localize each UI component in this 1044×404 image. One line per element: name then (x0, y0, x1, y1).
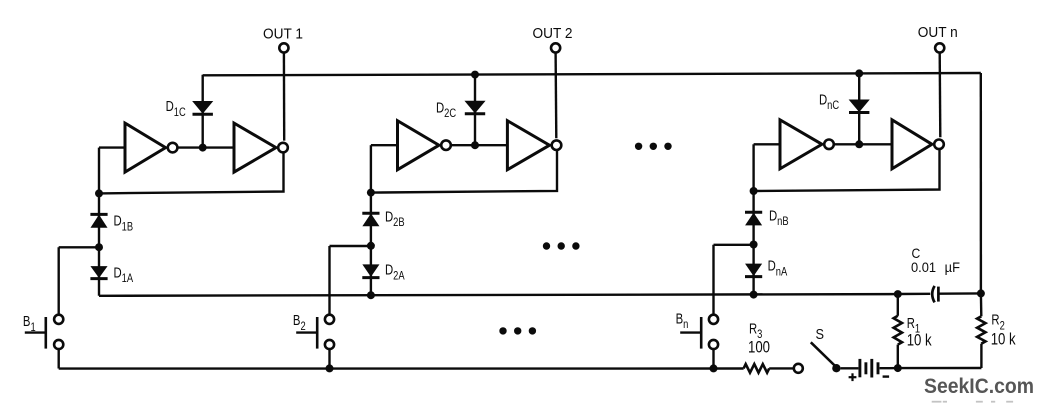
wire diode column stage 2 (370, 193, 372, 296)
inverter U2a (398, 121, 451, 170)
terminal OUT 1 (279, 43, 288, 52)
wire D2C branch (rail to node) (474, 75, 476, 146)
svg-text:0.01 µF: 0.01 µF (911, 260, 960, 276)
wire to U1a input (99, 146, 125, 148)
label battery plus (849, 373, 857, 381)
wire node to R2 bottom corner (898, 367, 982, 370)
wire Bn top riser (712, 245, 714, 315)
wire OUT n stem down to inverter output (939, 53, 942, 138)
wire switch pole to battery (841, 367, 859, 369)
pushbutton B2 actuator (296, 317, 317, 349)
wire B1 top riser (58, 247, 60, 314)
diode D1B (90, 214, 107, 227)
wire B1 top link (59, 246, 99, 248)
wire stage 1 left riser (input column) (98, 148, 100, 194)
node ellipsis (diode row continuation) (543, 242, 580, 249)
wire B2 bottom lead (328, 349, 330, 369)
pushbutton B1 top contact (54, 315, 63, 324)
wire stage 2 left riser (input column) (370, 145, 372, 192)
svg-text:SeekIC.com: SeekIC.com (924, 374, 1034, 398)
wire to Una input (754, 143, 780, 145)
wire Una output to Unb input (834, 143, 892, 145)
wire top rail (diode anode bus) (203, 73, 981, 75)
wire R1 top lead (897, 294, 899, 316)
diode D2C (465, 101, 485, 114)
svg-text:100: 100 (748, 338, 770, 357)
wire R2 bottom riser (980, 344, 982, 368)
node D2B/D2A junction (367, 242, 375, 250)
wire Bn top link (714, 244, 754, 246)
resistor R1 (894, 316, 902, 345)
node between inverters stage 2 (471, 141, 479, 149)
pushbutton B2 bottom contact (325, 340, 334, 349)
node R1 bottom (battery minus rail) (894, 364, 902, 372)
pushbutton Bn top contact (709, 315, 718, 324)
watermark cropped second line remnants (932, 401, 1013, 403)
node ellipsis (button row continuation) (499, 327, 536, 334)
diode DnB (745, 212, 762, 225)
svg-text:10 k: 10 k (991, 330, 1016, 349)
wire feedback stage 2 (U2b output down) (371, 150, 557, 193)
node ellipsis (inverter row continuation) (635, 143, 672, 150)
pushbutton Bn bottom contact (709, 340, 718, 349)
resistor R2 (977, 316, 985, 343)
wire Bn bottom lead (712, 349, 714, 369)
wire U1a output to U1b input (177, 146, 234, 148)
wire mid bus (diode DxA bus) (99, 294, 898, 296)
inverter Una (780, 120, 834, 169)
inverter U1a (125, 123, 177, 172)
node rail junction stage n (855, 69, 863, 77)
battery BT1 (860, 359, 878, 378)
node between inverters stage 1 (199, 144, 207, 152)
wire stage n left riser (input column) (752, 144, 754, 191)
node R1 top (bus) (894, 290, 902, 298)
diode D1A (90, 267, 107, 279)
node D2A to bus junction (367, 291, 375, 299)
wire B2 top riser (328, 246, 330, 315)
wire to U2a input (371, 144, 398, 146)
wire battery to node R1 bottom (880, 367, 898, 370)
diode DnA (745, 264, 762, 277)
label battery minus (883, 375, 890, 377)
node feedback junction stage 2 (367, 189, 375, 197)
node R2 top / C / top rail junction (977, 289, 985, 297)
terminal switch fixed contact (794, 364, 803, 373)
wire R1 bottom lead (897, 345, 899, 369)
switch S lever (811, 342, 836, 367)
diode D2B (362, 213, 379, 226)
capacitor C (932, 286, 938, 303)
node feedback junction stage n (750, 187, 758, 195)
node rail junction stage 2 (471, 71, 479, 79)
svg-text:S: S (816, 325, 825, 342)
wire R3 to switch contact (769, 367, 793, 369)
wire B2 top link (330, 245, 371, 247)
node feedback junction stage 1 (95, 189, 103, 197)
wire feedback stage n (Unb output down) (754, 149, 940, 191)
wire bus to capacitor left (898, 293, 930, 296)
wire OUT 1 stem down to inverter output (283, 53, 286, 141)
pushbutton B1 actuator (25, 317, 46, 349)
svg-text:10 k: 10 k (907, 331, 932, 350)
pushbutton B1 bottom contact (54, 340, 63, 349)
diode DnC (849, 100, 869, 113)
wire diode column stage n (752, 191, 754, 295)
node D1B/D1A junction (95, 243, 103, 251)
node Bn on bottom rail (710, 364, 718, 372)
wire U2a output to U2b input (451, 144, 508, 146)
node DnB/DnA junction (750, 241, 758, 249)
wire B1 bottom lead (58, 349, 60, 369)
svg-text:OUT n: OUT n (918, 25, 958, 42)
wire right rail vertical (980, 73, 983, 293)
diode D2A (362, 265, 379, 278)
svg-text:OUT 1: OUT 1 (263, 26, 303, 43)
terminal OUT n (935, 43, 944, 52)
inverter U2b (507, 121, 561, 170)
wire R2 top lead (980, 293, 983, 316)
wire feedback stage 1 (U1b output down) (99, 152, 284, 193)
wire diode column stage 1 (98, 193, 100, 295)
wire DnC branch (rail to node) (858, 73, 860, 144)
wire D1C branch (rail to node) (201, 75, 203, 148)
inverter U1b (234, 123, 288, 172)
resistor R3 (744, 364, 770, 373)
inverter Unb (892, 120, 944, 169)
diode D1C (193, 102, 213, 115)
wire bottom rail left section (59, 367, 744, 370)
node switch pole (832, 364, 840, 372)
wire OUT 2 stem down to inverter output (554, 53, 557, 139)
wire capacitor right to R2 top (938, 292, 981, 295)
pushbutton Bn actuator (680, 317, 701, 349)
pushbutton B2 top contact (325, 315, 334, 324)
node DnA to bus junction (750, 291, 758, 299)
node B2 on bottom rail (326, 364, 334, 372)
terminal OUT 2 (551, 43, 560, 52)
node between inverters stage n (855, 140, 863, 148)
svg-text:OUT 2: OUT 2 (533, 25, 573, 42)
